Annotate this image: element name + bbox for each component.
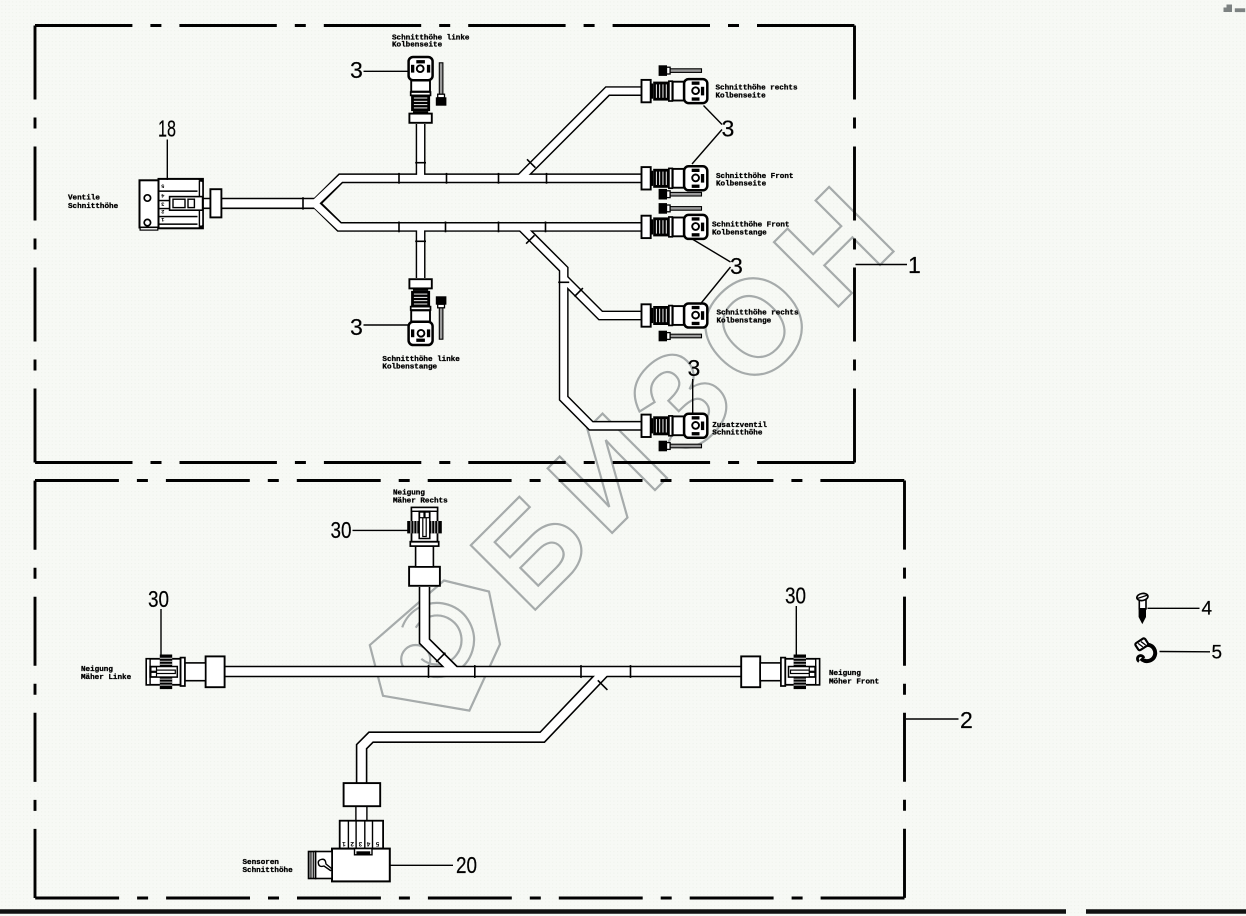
pigtail row1 xyxy=(659,65,702,76)
svg-text:Ventile: Ventile xyxy=(68,195,100,203)
pigtail top xyxy=(436,63,447,106)
pigtail bottom xyxy=(436,296,447,339)
connector 3 row4 Schnitthoehe rechts Kolbenstange xyxy=(642,304,708,328)
tick T12 on drop diagonal xyxy=(598,680,608,690)
tick T4 on branch up xyxy=(415,162,426,164)
svg-text:Sensoren: Sensoren xyxy=(243,859,280,867)
wire W12 drop (core) xyxy=(362,670,606,784)
comb block with pin numbers xyxy=(340,821,383,849)
ticks T2 upper pipe xyxy=(398,173,400,184)
svg-text:Schnitthöhe Front: Schnitthöhe Front xyxy=(716,173,793,181)
svg-text:5: 5 xyxy=(1212,643,1223,664)
svg-text:18: 18 xyxy=(158,116,176,142)
tiny corner marks top-right xyxy=(1224,5,1246,13)
svg-text:4: 4 xyxy=(367,840,371,847)
wire W10 lower trunk (outline) xyxy=(225,666,742,678)
tick T7 on diagonal of W7 xyxy=(526,235,534,243)
svg-text:2: 2 xyxy=(350,840,354,847)
wire W4 branch up to Schnitthoehe linke Kolbenseite (outline) xyxy=(416,124,426,176)
svg-text:Neigung: Neigung xyxy=(829,670,861,678)
wire W5 branch down to Schnitthoehe linke Kolbenstange (outline) xyxy=(416,229,426,278)
tape tick T1 on feed xyxy=(303,159,583,296)
wire W3 trunk lower pipe (outline) xyxy=(316,203,647,227)
svg-text:3: 3 xyxy=(350,314,363,340)
connector 3 row1 Schnitthoehe rechts Kolbenseite xyxy=(642,79,708,103)
wire W6 diagonal branch (core) xyxy=(520,91,646,178)
watermark text БИЗОН xyxy=(445,151,930,636)
wire W10 lower trunk (core) xyxy=(225,667,742,675)
svg-text:2: 2 xyxy=(960,707,973,733)
pigtail row5 xyxy=(659,441,702,452)
svg-text:Möher Front: Möher Front xyxy=(829,678,879,686)
svg-text:Schnitthöhe: Schnitthöhe xyxy=(243,867,294,875)
svg-text:1: 1 xyxy=(908,252,921,278)
wire W11 branch up (core) xyxy=(425,587,457,673)
tick T5 on branch down xyxy=(415,240,426,242)
svg-text:Mäher Linke: Mäher Linke xyxy=(81,674,132,682)
svg-text:Kolbenseite: Kolbenseite xyxy=(716,181,767,189)
svg-text:Schnitthöhe rechts: Schnitthöhe rechts xyxy=(717,309,799,317)
svg-text:Kolbenseite: Kolbenseite xyxy=(716,93,767,101)
svg-text:Schnitthöhe Front: Schnitthöhe Front xyxy=(712,222,789,230)
wire stub below marker (core) xyxy=(357,804,367,823)
wire W12 drop to Sensoren Schnitthoehe (outline) xyxy=(362,672,605,785)
latch hook xyxy=(318,859,332,870)
connector 3 row5 Zusatzventil Schnitthoehe xyxy=(642,414,708,438)
dashed frame box 1 (upper harness) xyxy=(35,26,855,463)
tick T6 on diagonal W6 xyxy=(527,159,535,167)
svg-text:Kolbenstange: Kolbenstange xyxy=(712,229,767,237)
connector 3 row2 Schnitthoehe Front Kolbenseite xyxy=(642,166,708,190)
svg-text:3: 3 xyxy=(358,840,362,847)
svg-text:5: 5 xyxy=(376,840,380,847)
svg-text:Kolbenseite: Kolbenseite xyxy=(392,42,443,50)
connector 20 Sensoren Schnitthoehe xyxy=(309,783,390,881)
svg-text:4: 4 xyxy=(1202,599,1213,620)
svg-text:3: 3 xyxy=(722,116,735,142)
wire W7 long drop to Zusatzventil (outline) xyxy=(522,227,647,426)
connector 3 row3 Schnitthoehe Front Kolbenstange xyxy=(642,215,708,239)
wire W1 feed (core) xyxy=(203,199,316,207)
pigtail row4 xyxy=(659,331,702,342)
ticks T10 lower trunk xyxy=(428,665,430,678)
wire W1 feed from connector 18 (outline) xyxy=(203,198,316,209)
wire W8 branch (core) xyxy=(564,279,646,316)
wire W7 long drop (core) xyxy=(522,227,647,426)
connector 30 top Neigung Maeher Rechts xyxy=(407,508,442,586)
svg-text:20: 20 xyxy=(456,852,477,878)
wire W11 branch up to Neigung Maeher Rechts (outline) xyxy=(425,587,455,671)
svg-text:3: 3 xyxy=(350,57,363,83)
tick T8 on vertical of W7 xyxy=(558,281,569,283)
connector 18 Ventile Schnitthoehe xyxy=(140,179,204,230)
pigtail row2 xyxy=(659,189,702,200)
svg-text:Kolbenstange: Kolbenstange xyxy=(382,363,437,371)
wire W3 trunk lower pipe (core) xyxy=(315,203,647,227)
watermark logo swirl outer xyxy=(402,603,474,677)
cable marker M2 xyxy=(344,783,381,806)
svg-text:30: 30 xyxy=(148,586,169,612)
item 5 hose clamp xyxy=(1135,638,1156,662)
svg-text:30: 30 xyxy=(785,583,806,609)
hatched end cap xyxy=(309,852,316,879)
wire W5 branch down (core) xyxy=(417,227,424,278)
svg-text:Schnitthöhe: Schnitthöhe xyxy=(712,430,763,438)
svg-text:30: 30 xyxy=(331,517,352,543)
wire W8 branch to Schnitthoehe rechts Kolbenstange (outline) xyxy=(564,279,646,316)
watermark logo swirl inner xyxy=(416,615,462,664)
svg-text:Schnitthöhe: Schnitthöhe xyxy=(68,203,119,211)
svg-text:Schnitthöhe rechts: Schnitthöhe rechts xyxy=(716,85,798,93)
dashed frame box 2 (lower harness) xyxy=(35,481,905,899)
wire W4 branch up (core) xyxy=(417,124,424,178)
connector 3 top Schnitthoehe linke Kolbenseite xyxy=(409,57,433,123)
connector 30 left Neigung Maeher Linke xyxy=(146,655,224,690)
tick T11 on branch diagonal xyxy=(436,653,445,662)
cable marker M1 after connector 18 xyxy=(210,189,221,217)
ticks T3 lower pipe xyxy=(398,222,400,233)
connector 3 bottom Schnitthoehe linke Kolbenstange xyxy=(409,279,433,345)
svg-text:1: 1 xyxy=(342,840,346,847)
sheet separator line (bottom) xyxy=(0,909,1246,913)
wire W2 trunk upper pipe (core) xyxy=(315,178,647,203)
svg-text:Kolbenstange: Kolbenstange xyxy=(717,318,772,326)
wire W6 diagonal to Schnitthoehe rechts Kolbenseite (outline) xyxy=(520,91,646,178)
svg-text:Neigung: Neigung xyxy=(81,666,113,674)
wire W2 trunk upper pipe (outline) xyxy=(316,178,647,203)
tick T9 on diagonal W8 xyxy=(575,288,583,296)
svg-text:Zusatzventil: Zusatzventil xyxy=(712,422,767,430)
svg-text:Neigung: Neigung xyxy=(393,490,425,498)
watermark logo hexagon xyxy=(370,581,500,711)
pigtail row3 xyxy=(659,203,702,214)
svg-text:3: 3 xyxy=(730,253,743,279)
item 4 screw xyxy=(1136,593,1148,625)
wire stub below marker (outline) xyxy=(355,804,367,823)
main body xyxy=(332,849,390,882)
connector 30 right Neigung Moeher Front xyxy=(741,655,819,690)
svg-text:3: 3 xyxy=(688,355,701,381)
svg-text:Mäher Rechts: Mäher Rechts xyxy=(393,497,448,505)
